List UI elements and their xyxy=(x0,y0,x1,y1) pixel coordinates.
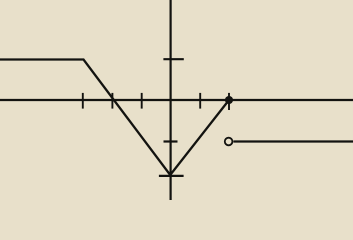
right horizontal ray from open circle xyxy=(233,140,353,142)
y-axis xyxy=(170,0,172,200)
open endpoint circle at (228.6,141.5) xyxy=(225,138,233,146)
x-axis tick at x=229 xyxy=(228,93,230,110)
y-axis tick at y=141.5 xyxy=(164,140,178,142)
x-axis tick at x=112.4 xyxy=(111,93,113,109)
x-axis tick at x=141.7 xyxy=(141,93,143,109)
y-axis tick at y=59.2 xyxy=(163,58,183,60)
x-axis xyxy=(0,99,353,101)
graph polyline: left horizontal then V xyxy=(0,60,229,176)
x-axis tick at x=200.2 xyxy=(199,93,201,109)
x-axis tick at x=82.8 xyxy=(82,93,84,109)
y-axis tick at y=175.9 xyxy=(159,175,184,177)
filled endpoint dot at (229,100) xyxy=(225,96,233,104)
